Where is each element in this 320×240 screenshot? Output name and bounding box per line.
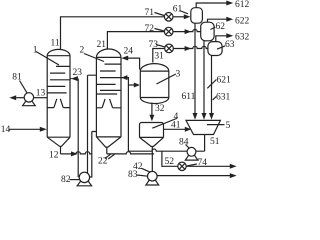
svg-text:3: 3 bbox=[176, 70, 181, 80]
svg-text:23: 23 bbox=[73, 68, 83, 78]
svg-text:41: 41 bbox=[171, 121, 181, 131]
svg-text:622: 622 bbox=[235, 16, 250, 26]
svg-text:21: 21 bbox=[97, 40, 107, 50]
svg-text:31: 31 bbox=[154, 51, 164, 61]
svg-text:632: 632 bbox=[235, 33, 250, 43]
svg-text:621: 621 bbox=[217, 76, 232, 86]
svg-text:83: 83 bbox=[128, 170, 138, 180]
svg-text:62: 62 bbox=[216, 22, 226, 32]
svg-text:612: 612 bbox=[235, 0, 250, 10]
svg-text:1: 1 bbox=[33, 45, 38, 55]
svg-text:24: 24 bbox=[124, 47, 134, 57]
svg-text:51: 51 bbox=[210, 137, 220, 147]
svg-text:5: 5 bbox=[226, 121, 231, 131]
svg-text:71: 71 bbox=[145, 8, 155, 18]
svg-text:631: 631 bbox=[216, 93, 231, 103]
svg-text:84: 84 bbox=[179, 137, 189, 147]
svg-text:611: 611 bbox=[182, 92, 196, 102]
svg-text:74: 74 bbox=[198, 158, 208, 168]
svg-text:61: 61 bbox=[173, 4, 183, 14]
svg-text:52: 52 bbox=[165, 157, 175, 167]
svg-text:2: 2 bbox=[80, 46, 85, 56]
svg-text:72: 72 bbox=[145, 24, 155, 34]
svg-text:13: 13 bbox=[36, 89, 46, 99]
svg-text:11: 11 bbox=[51, 39, 60, 49]
svg-text:12: 12 bbox=[49, 150, 59, 160]
svg-text:82: 82 bbox=[61, 175, 71, 185]
svg-text:32: 32 bbox=[155, 104, 165, 114]
svg-text:63: 63 bbox=[225, 40, 235, 50]
svg-text:14: 14 bbox=[1, 125, 11, 135]
svg-text:22: 22 bbox=[98, 156, 108, 166]
svg-text:73: 73 bbox=[149, 40, 159, 50]
svg-text:81: 81 bbox=[12, 72, 22, 82]
